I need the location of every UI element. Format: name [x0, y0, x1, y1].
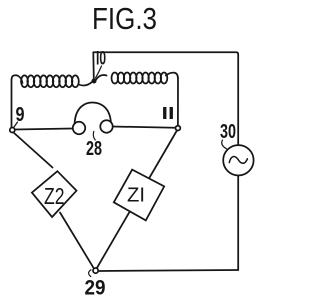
svg-text:29: 29: [85, 277, 106, 300]
AC source 30: [223, 145, 253, 175]
wire coupling coil 28 to node 11: [113, 127, 176, 128]
svg-text:28: 28: [86, 138, 102, 160]
coupling element 28: [73, 103, 113, 135]
tap junction dot: [92, 79, 97, 84]
wire tap riser to top: [92, 53, 95, 80]
leader line for 30: [222, 140, 227, 149]
wire node 11 to node 29 through Z1: [97, 131, 177, 269]
svg-text:ZI: ZI: [127, 185, 145, 207]
wire left vertical from coil to node 9: [12, 75, 23, 127]
impedance Z2: [32, 171, 77, 217]
inductor right half winding: [96, 73, 168, 84]
svg-text:Z2: Z2: [44, 183, 65, 209]
node 11 terminal: [176, 126, 181, 131]
inductor left half winding: [21, 75, 79, 87]
leader line for 29: [89, 270, 91, 277]
wire node 9 to impedance Z2: [14, 133, 53, 168]
sine wave inside source: [229, 157, 247, 164]
svg-text:FIG.3: FIG.3: [92, 2, 157, 36]
wire right winding down to node 11: [166, 73, 178, 126]
leader line for 9: [14, 122, 18, 127]
impedance Z1: [114, 170, 164, 221]
wire from left winding to tap 10: [79, 82, 93, 86]
svg-text:II: II: [162, 103, 175, 123]
node 29 terminal: [93, 268, 98, 273]
leader line for 28: [93, 132, 95, 141]
wire bottom from right corner to node 29: [98, 270, 238, 271]
wire node 9 to coupling coil 28: [15, 129, 73, 130]
node 9 terminal: [10, 128, 15, 133]
wire right vertical below source: [237, 176, 239, 270]
wire impedance Z2 to node 29: [60, 213, 94, 269]
leader line for 10: [96, 66, 102, 78]
top wire from tap to right side: [93, 52, 238, 145]
